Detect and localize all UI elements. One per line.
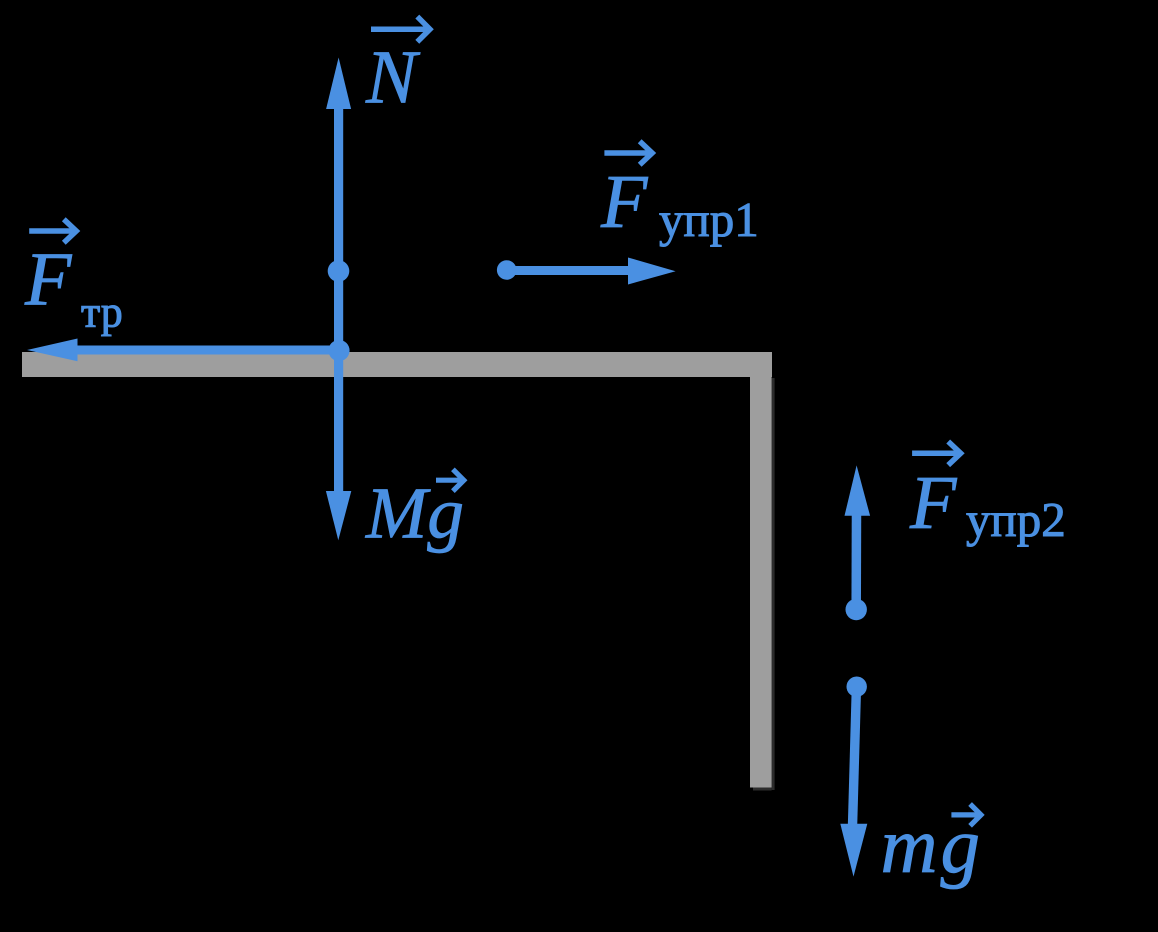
label N xyxy=(365,36,421,120)
svg-text:упр2: упр2 xyxy=(966,492,1066,547)
weight Mg arrow (down) xyxy=(326,350,351,540)
vector hat over Fтр xyxy=(29,219,76,243)
force N arrow (normal force, up) xyxy=(326,58,351,352)
node dot on N line xyxy=(328,260,350,282)
table horizontal surface xyxy=(22,352,772,377)
junction dot at table xyxy=(328,340,349,361)
label Fупр2 xyxy=(909,461,1066,547)
table vertical edge xyxy=(750,352,772,788)
vector hat over Fупр2 xyxy=(912,442,961,466)
svg-text:упр1: упр1 xyxy=(659,192,759,247)
vector hat over N xyxy=(371,17,430,42)
label Fтр xyxy=(24,238,123,337)
svg-text:F: F xyxy=(24,238,73,322)
spring force Fупр2 arrow (up) xyxy=(845,465,871,620)
svg-text:N: N xyxy=(365,36,421,120)
weight mg arrow (down) xyxy=(840,677,867,877)
svg-text:тр: тр xyxy=(81,287,123,336)
friction force Fтр arrow (left) xyxy=(27,339,339,362)
svg-text:F: F xyxy=(600,160,649,244)
label mg xyxy=(881,803,984,890)
label Mg xyxy=(365,472,464,553)
table shadow xyxy=(753,378,775,791)
svg-text:Mg: Mg xyxy=(365,472,464,553)
vector hat over Fупр1 xyxy=(604,141,652,165)
vector hat over mg xyxy=(951,804,981,826)
vector hat over Mg xyxy=(436,469,464,491)
label Fупр1 xyxy=(600,160,759,247)
svg-text:F: F xyxy=(909,461,958,545)
spring force Fупр1 arrow (right) xyxy=(497,258,676,285)
